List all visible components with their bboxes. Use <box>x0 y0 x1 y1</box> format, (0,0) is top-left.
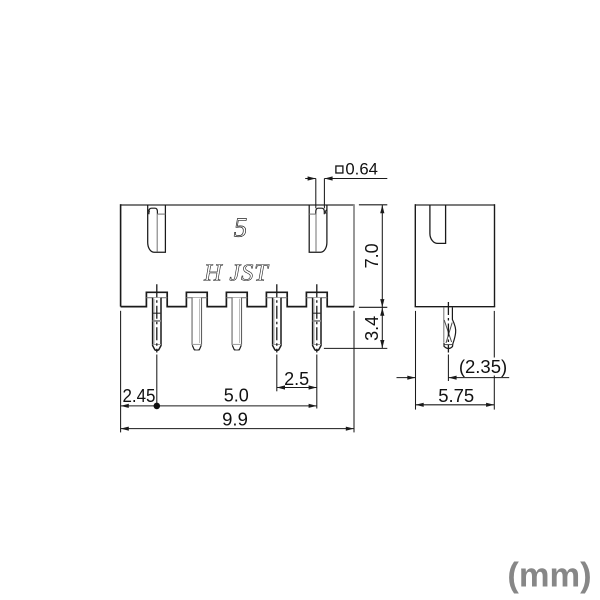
pin 1 crimp tick marks <box>153 312 161 314</box>
front view right slot opening <box>309 205 327 252</box>
svg-text:2.45: 2.45 <box>123 386 156 406</box>
right slot inner horizontal line <box>309 213 316 215</box>
right slot inner contact tab <box>316 208 325 214</box>
dimension 3.4 extension line at pin tips <box>324 347 387 349</box>
dimension 2.35 line and arrows <box>397 377 416 379</box>
svg-text:(mm): (mm) <box>507 557 591 595</box>
svg-text:5.0: 5.0 <box>224 385 249 405</box>
left slot inner horizontal line <box>157 213 165 215</box>
side view pin <box>443 307 445 342</box>
square pin 5 front view <box>313 298 321 351</box>
right slot inner vertical line <box>315 214 317 252</box>
round pin 3 front view <box>232 298 241 345</box>
side view pin bend lines <box>444 320 451 342</box>
side view left extension line <box>415 311 417 410</box>
pin 5 centerline <box>316 284 318 352</box>
pin 5 crimp tick marks <box>313 312 321 314</box>
left slot inner contact tab <box>149 208 158 214</box>
square pin 4 front view <box>273 298 281 351</box>
left slot nick detail <box>148 210 150 214</box>
left slot inner vertical line <box>156 214 158 252</box>
side view top notch slot <box>430 205 446 243</box>
dimension 5.75 line and arrows <box>416 404 495 406</box>
front view left slot opening <box>148 205 166 252</box>
svg-text:0.64: 0.64 <box>345 159 378 178</box>
side view right extension line lower segment <box>493 376 495 410</box>
front view bottom castellated edge with pin tabs <box>121 292 354 306</box>
dimension 7.0 line and arrows <box>381 205 383 307</box>
node dot at pin 1 center <box>154 403 161 410</box>
side view right extension line upper segment <box>493 311 495 358</box>
svg-text:(2.35): (2.35) <box>459 356 507 377</box>
side view pin centerline extension <box>447 355 449 382</box>
round pin 2 front view <box>192 298 201 345</box>
svg-text:5: 5 <box>234 212 248 242</box>
dimension 0.64 line and arrows <box>305 178 316 180</box>
left body edge extension line <box>120 311 122 433</box>
dimension 0.64 extension lines <box>315 179 317 209</box>
dimension label 0.64 with square symbol <box>336 166 343 173</box>
right slot nick detail <box>325 210 327 214</box>
dimension 7.0 extension lines <box>359 204 387 206</box>
svg-text:9.9: 9.9 <box>222 408 248 429</box>
front view housing body outline <box>121 205 354 307</box>
pin 1 centerline <box>156 284 158 352</box>
pin 1 extension line <box>156 355 158 406</box>
pin 5 extension line <box>316 355 318 409</box>
pin 4 extension line <box>276 355 278 392</box>
svg-text:3.4: 3.4 <box>362 316 382 341</box>
svg-text:5.75: 5.75 <box>438 385 474 406</box>
side view housing body outline <box>415 205 494 307</box>
dimension 2.5 line and arrows <box>277 387 317 389</box>
side view pin centerline <box>447 302 449 353</box>
pin 4 centerline <box>276 284 278 352</box>
dimension 3.4 line and arrows <box>381 307 383 348</box>
dimension 9.9 line and arrows <box>121 428 354 430</box>
dimension 2.45 and 5.0 shared line <box>121 405 317 407</box>
svg-text:H JST: H JST <box>203 260 270 287</box>
square pin 1 front view <box>153 298 161 351</box>
right body edge extension line <box>353 311 355 433</box>
svg-text:2.5: 2.5 <box>284 369 309 389</box>
svg-text:7.0: 7.0 <box>362 243 382 268</box>
tab inner gray lines <box>146 297 167 299</box>
